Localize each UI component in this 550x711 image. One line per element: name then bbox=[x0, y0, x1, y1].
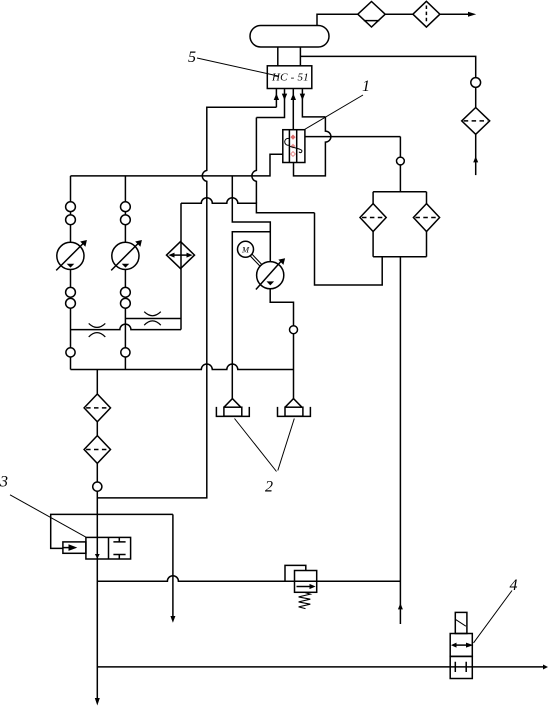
right filter diamond bbox=[413, 204, 439, 232]
quick couplings chain1 top bbox=[66, 202, 76, 212]
right filter branch stubs bbox=[426, 192, 428, 257]
link between filters bbox=[96, 422, 98, 436]
wire: tank left leg to HC-51 bbox=[277, 47, 279, 66]
pressure relief valve bbox=[295, 571, 317, 593]
quick coupling on pump outlet bbox=[290, 326, 298, 334]
air filter diamond (dashed vertical) bbox=[413, 1, 440, 27]
filter diamond lower bbox=[84, 436, 110, 464]
cross line A with throttle (chain2 to shuttle) bbox=[125, 318, 181, 320]
label 5 leader bbox=[197, 58, 278, 76]
filter diamond upper bbox=[84, 394, 110, 422]
pump suction: from bus1 down to pump inlet bbox=[232, 176, 270, 262]
pump (variable, driven by M) bbox=[257, 262, 284, 289]
right return line from HC-51 area bbox=[300, 56, 475, 77]
quick coupling right line bbox=[471, 78, 481, 88]
wire: tank right leg to HC-51 bbox=[299, 47, 301, 66]
flow arrow up on drain line bbox=[398, 603, 403, 609]
hydraulic motor M2 (variable) bbox=[112, 242, 139, 269]
svg-text:НС - 51: НС - 51 bbox=[271, 72, 309, 84]
motor chain 1: lower line bbox=[70, 270, 72, 370]
wire: comp3 outlet down to main line and tank arrow bbox=[96, 559, 98, 701]
wire: top distribution rail (bus1) bbox=[71, 154, 283, 176]
svg-text:2: 2 bbox=[265, 479, 273, 496]
wire to coupling bbox=[96, 463, 98, 537]
port line 2 of HC-51 (down arrow) bbox=[256, 89, 284, 118]
left filter diamond bbox=[360, 204, 386, 232]
label 3 leader bbox=[10, 495, 86, 537]
comp3 actuator box with arrow bbox=[63, 542, 86, 553]
wire: shuttle feed vertical bbox=[180, 203, 182, 329]
pump outlet to right nozzle bbox=[270, 289, 293, 399]
wire: port2 line down (hops bus1, joins suction bus) bbox=[252, 118, 257, 204]
main bottom line with right arrow bbox=[97, 666, 543, 668]
motor chain 2: lower line bbox=[124, 270, 126, 370]
throttle T1 arcs bbox=[89, 323, 106, 337]
svg-text:5: 5 bbox=[188, 49, 196, 66]
tank (reservoir, stadium shape) bbox=[250, 26, 329, 48]
left spray nozzle (component 2) bbox=[224, 399, 241, 408]
port line 4 of HC-51 (down arrow) bbox=[302, 89, 325, 117]
red dot marks in distributor bbox=[290, 135, 295, 157]
filter pair bottom rail bbox=[373, 256, 426, 258]
moisture separator diamond (top vent) bbox=[358, 2, 385, 28]
pilot drain with down arrow bbox=[172, 514, 174, 616]
filter pair top rail bbox=[373, 191, 426, 193]
shut-off valve (component 3) bbox=[86, 537, 131, 559]
suction bus (bus2): shuttle to filter drain, bumps over two verticals bbox=[181, 198, 315, 213]
tee to left nozzle bbox=[232, 232, 270, 399]
comp3 pilot loop bbox=[51, 514, 173, 548]
hydraulic motor M1 (variable) bbox=[57, 242, 84, 269]
motor-pump shaft (double line) bbox=[250, 254, 262, 266]
quick coupling on distributor output bbox=[397, 157, 405, 165]
distributor block (component 1) bbox=[283, 130, 305, 163]
throttle T2 arcs bbox=[144, 312, 161, 326]
shuttle valve (diamond with double arrow) bbox=[167, 242, 195, 269]
relief valve pilot bbox=[285, 565, 306, 581]
wire: distributor right port to filter pair (hop drawn on port4 loop) bbox=[305, 136, 401, 138]
pump station HC-51 (component 5) bbox=[267, 66, 312, 89]
distributor internal curve (S passage) bbox=[289, 146, 302, 152]
relief line from left chain to drain line (bump over pilot drain) bbox=[97, 576, 400, 582]
distributor internal curve (left arc) bbox=[285, 138, 289, 145]
comp3 closed ports (right square) bbox=[113, 537, 125, 559]
svg-text:3: 3 bbox=[0, 474, 8, 491]
wire: filter pair drain to suction bus bbox=[315, 213, 383, 285]
left filter branch stubs bbox=[372, 192, 374, 257]
quick coupling left chain bbox=[93, 482, 102, 491]
motor chain 1: upper line bbox=[70, 176, 72, 242]
electric motor M bbox=[238, 241, 254, 257]
left filter chain from bus3 bbox=[96, 370, 98, 395]
wire: separator to air filter bbox=[385, 13, 413, 15]
motor chain 2: upper line bbox=[124, 176, 126, 242]
comp4 middle square with double arrow bbox=[450, 634, 472, 657]
wire: tank top vent line bbox=[317, 14, 358, 26]
port line 3 of HC-51 (up arrow) bbox=[292, 89, 294, 130]
right spray nozzle (component 2) bbox=[285, 399, 302, 408]
label 1 leader bbox=[305, 95, 364, 130]
comp4 bottom square with port stubs bbox=[450, 656, 472, 678]
wire: port1 line down left side (hops bus1) bbox=[97, 107, 276, 498]
comp3 through-flow with arrow bbox=[96, 537, 98, 559]
cross line B with throttle (chain1 to shuttle, hops chain2) bbox=[71, 324, 182, 329]
label 2 leaders bbox=[235, 419, 295, 472]
relief valve spring bbox=[299, 592, 311, 608]
svg-text:М: М bbox=[241, 245, 250, 255]
label 4 leader bbox=[474, 591, 513, 643]
wire: port4 loop right side (hops over distributor output line) bbox=[294, 117, 331, 176]
right return filter diamond bbox=[462, 108, 490, 135]
svg-text:1: 1 bbox=[362, 78, 370, 95]
valve component 4: lever top bbox=[455, 612, 467, 633]
lower rail (bus3) with bumps over two verticals bbox=[71, 364, 294, 369]
wire: main pressure line down to filters/relief (from filter pair) bbox=[399, 257, 401, 624]
wire below filter with up arrow bbox=[475, 134, 477, 175]
wire: vent outlet with arrow bbox=[440, 13, 469, 15]
wire: down to quick coupling and filter pair bbox=[399, 137, 401, 192]
port line 1 of HC-51 (up arrow) bbox=[275, 89, 277, 108]
svg-text:4: 4 bbox=[510, 577, 518, 594]
